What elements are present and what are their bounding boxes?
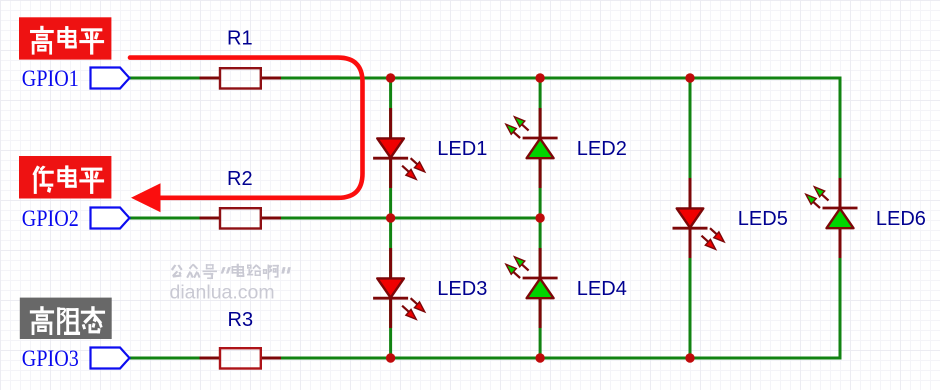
wire GPIO3 horizontal net [130,357,842,360]
svg-text:LED3: LED3 [437,278,487,300]
current flow arrow GPIO1 to GPIO2 [130,58,363,213]
port GPIO3 [22,346,130,371]
junction dot mid-2 [535,213,544,222]
LED LED4 (green) [506,248,558,328]
svg-text:LED2: LED2 [577,138,627,160]
label box high-level (gao dian ping) [19,17,111,59]
LED LED6 (green) [806,178,858,258]
svg-text:GPIO1: GPIO1 [22,66,79,91]
svg-text:dianlua.com: dianlua.com [170,282,275,304]
resistor R2 [200,208,282,228]
resistor R1 [200,68,282,88]
svg-text:LED4: LED4 [577,278,627,300]
junction dot bottom-3 [685,353,694,362]
junction dot top-2 [535,73,544,82]
svg-text:R3: R3 [228,309,254,331]
label box high-impedance (gao zu tai) [20,298,112,339]
watermark gongzhonghao dianlua [171,264,290,279]
wire LED2/LED4 column [539,78,542,358]
svg-text:LED6: LED6 [876,208,926,230]
junction dot mid-1 [386,213,395,222]
port GPIO2 [22,206,130,231]
svg-text:R2: R2 [227,168,253,190]
junction dot top-3 [685,73,694,82]
svg-text:GPIO2: GPIO2 [22,206,79,231]
wire LED5 column [689,78,692,358]
junction dot top-1 [386,73,395,82]
wire GPIO2 horizontal net [130,217,540,220]
junction dot bottom-1 [386,353,395,362]
label box low-level (di dian ping) [19,156,111,199]
LED LED1 (red) [373,108,425,188]
LED LED3 (red) [373,248,425,328]
svg-text:LED5: LED5 [738,208,788,230]
svg-text:GPIO3: GPIO3 [22,346,79,371]
wire right edge vertical [839,77,842,360]
wire LED1/LED3 column [389,78,392,358]
resistor R3 [200,348,282,368]
LED LED5 (red) [673,178,725,258]
LED LED2 (green) [506,108,558,188]
svg-text:LED1: LED1 [437,138,487,160]
port GPIO1 [22,66,130,91]
wire GPIO1 horizontal net [130,77,842,80]
svg-text:R1: R1 [227,28,253,50]
junction dot bottom-2 [535,353,544,362]
